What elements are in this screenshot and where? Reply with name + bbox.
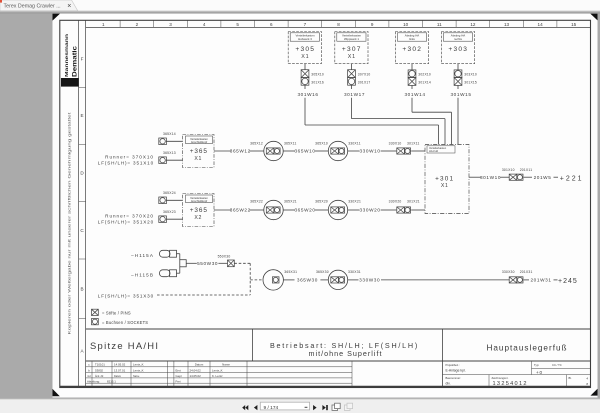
bulkhead connector 365X12/365X11 (264, 141, 283, 160)
svg-text:T10101: T10101 (95, 363, 105, 367)
label 365X20 (315, 199, 328, 203)
svg-text:X1: X1 (194, 156, 202, 162)
svg-text:F: F (81, 57, 84, 62)
legend socket symbol (92, 319, 99, 325)
svg-text:8215.1: 8215.1 (107, 379, 116, 383)
wire 550W30 (186, 262, 197, 264)
svg-text:Name: Name (222, 363, 230, 367)
connector 302X10/301X14 (408, 70, 431, 86)
wire 301W15 route to +301 (457, 85, 459, 144)
Mannesmann Dematic logo (61, 34, 79, 87)
wire to +245 (554, 279, 558, 281)
annotation Runner 370X10 (105, 154, 154, 159)
svg-text:301W16: 301W16 (297, 92, 318, 97)
wire 301W17 route to +301 (352, 86, 446, 145)
lamp -H115A (160, 250, 177, 257)
svg-text:330X20: 330X20 (389, 199, 402, 203)
wire (166, 159, 182, 161)
wire 301W16 route to +301 (305, 86, 439, 145)
svg-text:CC / TC: CC / TC (552, 363, 562, 367)
page corner mark bottom-right (591, 389, 598, 396)
svg-text:4: 4 (203, 22, 206, 27)
svg-text:Terex Demag Crawler ...: Terex Demag Crawler ... (4, 4, 61, 10)
wire label 301W14 (404, 92, 425, 97)
svg-text:+305: +305 (295, 46, 315, 53)
svg-text:K. Lentz: K. Lentz (212, 374, 223, 378)
svg-text:14.05.02: 14.05.02 (114, 363, 126, 367)
wire 365W30 (283, 279, 294, 281)
svg-text:Spitze HA/HI: Spitze HA/HI (90, 340, 159, 351)
label 330X11 (348, 141, 361, 145)
annotation LF 351X10 (98, 160, 154, 165)
svg-text:305X10: 305X10 (311, 72, 324, 76)
svg-text:Hubwerk 3: Hubwerk 3 (298, 37, 312, 41)
drawing border frame (60, 20, 591, 387)
svg-text:+221: +221 (560, 175, 584, 182)
wire (218, 262, 227, 264)
svg-text:+302: +302 (402, 46, 422, 53)
svg-text:7: 7 (304, 22, 307, 27)
svg-text:14: 14 (538, 22, 544, 27)
svg-text:201W5: 201W5 (534, 175, 552, 180)
svg-text:Zeichnungsnr.: Zeichnungsnr. (492, 376, 509, 380)
row-letter column line (85, 20, 87, 387)
connector 330X10/301X11 (397, 148, 411, 154)
column number ticks (120, 20, 557, 27)
svg-text:Datum: Datum (195, 363, 204, 367)
label 301X10 (502, 168, 515, 172)
svg-text:9: 9 (371, 22, 374, 27)
svg-text:330X31: 330X31 (348, 270, 361, 274)
junction box +365 X2 (Anschlusskopf) (183, 194, 215, 227)
junction box +305 X1 (Hubwerk 3) (288, 32, 321, 64)
svg-text:330W30: 330W30 (359, 278, 380, 283)
svg-text:Lentz_K: Lentz_K (133, 363, 144, 367)
svg-text:Baunummer:: Baunummer: (446, 376, 462, 380)
nav button previous page (254, 405, 258, 410)
svg-text:LF(SH/LH)= 351X20: LF(SH/LH)= 351X20 (98, 219, 154, 224)
svg-text:301X15: 301X15 (464, 81, 477, 85)
svg-text:8: 8 (337, 22, 340, 27)
svg-text:Runner= 370X10: Runner= 370X10 (105, 154, 154, 159)
legend text sockets (102, 320, 148, 325)
svg-text:Anschlußkopf: Anschlußkopf (191, 140, 208, 144)
svg-text:Bl.: Bl. (569, 376, 572, 380)
connector 305X10/301X16 (301, 70, 324, 86)
svg-text:303X10: 303X10 (464, 72, 477, 76)
svg-text:12: 12 (470, 22, 476, 27)
svg-text:Typ:: Typ: (534, 363, 539, 367)
svg-text:330X30: 330X30 (502, 270, 515, 274)
wire 301W10 (469, 176, 481, 178)
svg-text:550W30: 550W30 (197, 261, 218, 266)
wire (283, 150, 295, 152)
svg-text:LF(SH/LH)= 351X30: LF(SH/LH)= 351X30 (98, 293, 154, 298)
wire (283, 209, 295, 211)
svg-text:mit/ohne Superlift: mit/ohne Superlift (309, 349, 383, 358)
svg-text:X1: X1 (348, 54, 356, 60)
svg-text:24.04.02: 24.04.02 (190, 369, 202, 373)
svg-text:365X24: 365X24 (163, 191, 176, 195)
svg-text:–H115B: –H115B (131, 272, 154, 277)
label 330X30 (502, 270, 515, 274)
svg-text:Lentz_K: Lentz_K (133, 369, 144, 373)
label 365X14 (163, 132, 176, 136)
page corner mark top-right (590, 14, 597, 21)
wires lamps to junction plug (177, 254, 180, 274)
svg-text:Name: Name (133, 375, 140, 378)
wire label 301W17 (344, 92, 365, 97)
junction box +307 X1 (Wippwerk 1) (335, 32, 368, 64)
svg-text:301X11: 301X11 (407, 141, 420, 145)
svg-text:Kopieren oder Weitergabe nur m: Kopieren oder Weitergabe nur mit unserer… (68, 113, 72, 335)
wire label 301W10 (480, 175, 501, 180)
wire label 365W22 (230, 208, 251, 213)
connector 365X24 (159, 197, 167, 204)
label 201X31 (520, 270, 533, 274)
svg-text:Hauptauslegerfuß: Hauptauslegerfuß (486, 343, 567, 352)
svg-text:330W10: 330W10 (359, 149, 380, 154)
junction box +365 X1 (Anschlusskopf) (183, 135, 215, 168)
page corner mark top-left (53, 14, 61, 21)
wire (214, 150, 231, 152)
svg-text:B: B (80, 287, 83, 292)
label 365X23 (163, 210, 176, 214)
svg-text:201X11: 201X11 (520, 168, 533, 172)
legend pin symbol (92, 309, 99, 315)
bottom toolbar (0, 398, 600, 413)
wire 201W31 (524, 279, 529, 281)
svg-text:365W20: 365W20 (294, 208, 315, 213)
nav button last page (322, 405, 327, 410)
wire label 550W30 (197, 261, 218, 266)
nav button next page (313, 405, 317, 410)
connector 365X13 (159, 157, 167, 164)
label 330X10 (389, 141, 402, 145)
svg-text:Datum: Datum (114, 375, 121, 378)
svg-text:E: E (80, 113, 83, 118)
lamp label -H115A (131, 253, 154, 258)
label 365X30 (316, 270, 329, 274)
page corner mark bottom-left (53, 389, 60, 396)
wire (381, 150, 397, 152)
nav button first page (242, 405, 248, 410)
label 330X21 (348, 199, 361, 203)
wire (166, 199, 182, 201)
legend text pins (102, 311, 131, 316)
svg-text:Dematic: Dematic (71, 45, 78, 77)
connector 365X23 (159, 216, 167, 223)
title field Betriebsart (270, 341, 419, 358)
svg-text:5: 5 (236, 22, 239, 27)
label 550X30 (218, 255, 231, 259)
wire label 365W30 (297, 278, 318, 283)
svg-text:6: 6 (270, 22, 273, 27)
svg-text:15: 15 (571, 22, 577, 27)
annotation LF 351X30 (98, 293, 154, 298)
svg-text:11: 11 (437, 22, 442, 27)
svg-text:13254012: 13254012 (493, 381, 528, 387)
wire (250, 209, 264, 211)
destination +221 (560, 175, 584, 182)
page number combo box (260, 402, 309, 411)
toolbar icon pages disabled (344, 403, 352, 410)
svg-text:Mannesmann: Mannesmann (64, 34, 69, 77)
svg-text:Änd.-Nr.: Änd.-Nr. (95, 375, 104, 378)
bulkhead connector 365X31 (263, 270, 283, 290)
junction box +303 (Abstieg HA rechts) (441, 32, 474, 64)
junction box +301 X1 (Verteilerkasten HA-Fuss) (425, 145, 469, 214)
svg-text:365X30: 365X30 (316, 270, 329, 274)
svg-text:301X17: 301X17 (358, 81, 371, 85)
wire (348, 209, 360, 211)
lamp label -H115B (131, 272, 154, 277)
revision table texts (87, 363, 144, 384)
left margin strip line (78, 20, 80, 387)
label 365X12 (250, 141, 263, 145)
svg-text:Erst: Erst (176, 369, 181, 373)
wire (166, 218, 182, 220)
svg-text:301X14: 301X14 (418, 81, 431, 85)
svg-text:550X30: 550X30 (218, 255, 231, 259)
label 330X31 (348, 270, 361, 274)
svg-text:301W15: 301W15 (450, 92, 471, 97)
pin connector 550X30 (228, 260, 235, 267)
svg-text:301W17: 301W17 (344, 92, 365, 97)
svg-text:365W10: 365W10 (294, 149, 315, 154)
wire (500, 176, 509, 178)
svg-text:307X10: 307X10 (358, 72, 371, 76)
svg-text:365X13: 365X13 (163, 151, 176, 155)
wire into +301 (411, 150, 425, 152)
connector 301X10/201X11 (509, 174, 523, 180)
svg-text:10: 10 (403, 22, 409, 27)
svg-text:302X10: 302X10 (418, 72, 431, 76)
wire label 201W31 (530, 278, 551, 283)
svg-text:2: 2 (136, 22, 139, 27)
svg-text:330X21: 330X21 (348, 199, 361, 203)
svg-text:Abteilung:: Abteilung: (87, 379, 100, 383)
row letters F-A (79, 57, 86, 354)
wire label 330W10 (359, 149, 380, 154)
annotation Runner 370X20 (105, 213, 154, 218)
wire (250, 150, 264, 152)
svg-text:Projektbez.:: Projektbez.: (446, 363, 460, 367)
svg-text:301X21: 301X21 (407, 199, 420, 203)
svg-text:330X11: 330X11 (348, 141, 361, 145)
svg-text:LF(SH/LH)= 351X10: LF(SH/LH)= 351X10 (98, 160, 154, 165)
svg-text:HA-Fuß: HA-Fuß (429, 149, 438, 153)
svg-text:365W22: 365W22 (230, 208, 251, 213)
wire label 330W20 (359, 208, 380, 213)
wire +302 to connector (411, 64, 413, 70)
svg-text:links: links (409, 37, 415, 41)
svg-text:+0: +0 (536, 370, 543, 375)
svg-text:X1: X1 (301, 54, 309, 60)
wire to +221 (554, 176, 559, 178)
bulkhead connector 365X22/365X21 (264, 200, 283, 219)
svg-text:365X14: 365X14 (163, 132, 176, 136)
wire +305 to connector (304, 64, 306, 70)
svg-text:+303: +303 (448, 46, 468, 53)
svg-text:365X31: 365X31 (284, 270, 297, 274)
bulkhead connector 365X30/330X31 (328, 270, 347, 289)
label 365X22 (250, 199, 263, 203)
svg-text:301X10: 301X10 (502, 168, 515, 172)
svg-text:365X22: 365X22 (250, 199, 263, 203)
svg-text:= Buchsen / SOCKETS: = Buchsen / SOCKETS (102, 320, 148, 325)
label 301X21 (407, 199, 420, 203)
svg-text:330W20: 330W20 (359, 208, 380, 213)
svg-text:365X20: 365X20 (315, 199, 328, 203)
browser tab bar (0, 0, 600, 11)
svg-text:365X10: 365X10 (315, 141, 328, 145)
junction box +302 (Abstieg HA links) (395, 32, 428, 64)
label 330X20 (389, 199, 402, 203)
svg-text:13.07.01: 13.07.01 (114, 369, 126, 373)
bulkhead connector 365X10/330X11 (328, 141, 347, 160)
wire label 301W15 (450, 92, 471, 97)
wire label 365W10 (294, 149, 315, 154)
label 365X13 (163, 151, 176, 155)
svg-text:13: 13 (504, 22, 510, 27)
svg-text:rechts: rechts (454, 37, 462, 41)
connector 307X10/301X17 (348, 70, 371, 86)
connector 303X10/301X15 (454, 70, 477, 86)
lamp -H115B (160, 270, 177, 277)
svg-text:+307: +307 (342, 46, 362, 53)
label 365X11 (284, 141, 297, 145)
wire (166, 140, 182, 142)
svg-text:+365: +365 (190, 207, 208, 214)
label 365X21 (284, 199, 297, 203)
svg-text:E-Anlage kpl.: E-Anlage kpl. (446, 368, 466, 372)
copyright notice rotated text (68, 113, 72, 335)
wire (381, 209, 397, 211)
wire label 365W20 (294, 208, 315, 213)
svg-text:Frei: Frei (176, 379, 181, 383)
wire label 365W12 (230, 149, 251, 154)
title block grid (86, 329, 591, 387)
svg-text:×: × (67, 3, 71, 10)
svg-text:301W14: 301W14 (404, 92, 425, 97)
svg-text:X1: X1 (441, 183, 449, 189)
toolbar icon pages active (332, 403, 340, 410)
top column band line (86, 26, 591, 28)
svg-text:1: 1 (102, 22, 105, 27)
svg-text:Anschlußkopf: Anschlußkopf (191, 199, 208, 203)
wire into +301 (411, 209, 425, 211)
connector 330X20/301X21 (397, 207, 411, 213)
wire +303 to connector (457, 64, 459, 70)
svg-text:Runner= 370X20: Runner= 370X20 (105, 213, 154, 218)
svg-text:301X16: 301X16 (311, 81, 324, 85)
svg-text:Wippwerk 1: Wippwerk 1 (344, 37, 359, 41)
bulkhead connector 365X20/330X21 (328, 200, 347, 219)
wire +307 to connector (351, 64, 353, 70)
svg-text:Gepr: Gepr (176, 374, 182, 378)
wire (320, 279, 328, 281)
svg-text:201X31: 201X31 (520, 270, 533, 274)
svg-text:365W12: 365W12 (230, 149, 251, 154)
wire (348, 150, 360, 152)
svg-text:div.: div. (446, 382, 451, 386)
junction plug 550 (180, 260, 186, 267)
wire 330W30 (348, 279, 359, 281)
svg-text:+245: +245 (558, 278, 578, 285)
label 365X31 (284, 270, 297, 274)
svg-text:+301: +301 (435, 176, 454, 183)
drawing info texts (446, 363, 589, 387)
svg-text:Lentz_K: Lentz_K (212, 369, 223, 373)
label 301X11 (407, 141, 420, 145)
title field Spitze HA/HI (90, 340, 159, 351)
svg-text:X2: X2 (194, 215, 202, 221)
wire (315, 150, 328, 152)
svg-text:3: 3 (169, 22, 172, 27)
svg-text:14.05.02: 14.05.02 (190, 374, 202, 378)
label 201X11 (520, 168, 533, 172)
approval table texts (176, 363, 231, 384)
svg-text:201W31: 201W31 (530, 278, 551, 283)
wire 301W14 route to +301 (412, 85, 452, 144)
svg-text:365X21: 365X21 (284, 199, 297, 203)
wire 201W5 (524, 176, 532, 178)
svg-text:365X11: 365X11 (284, 141, 297, 145)
label 365X24 (163, 191, 176, 195)
svg-text:330X10: 330X10 (389, 141, 402, 145)
svg-text:–H115A: –H115A (131, 253, 154, 258)
destination +245 (558, 278, 578, 285)
connector 330X30/201X31 (509, 277, 523, 283)
svg-text:365W30: 365W30 (297, 278, 318, 283)
column numbers 1-15 (102, 22, 577, 27)
svg-text:365X23: 365X23 (163, 210, 176, 214)
title field Hauptauslegerfuss (486, 343, 567, 352)
connector 365X14 (159, 138, 167, 145)
svg-text:+365: +365 (190, 148, 208, 155)
label 365X10 (315, 141, 328, 145)
annotation LF 351X20 (98, 219, 154, 224)
wire (214, 209, 231, 211)
wire label 301W16 (297, 92, 318, 97)
svg-text:301W10: 301W10 (480, 175, 501, 180)
svg-text:= Stifte / PINS: = Stifte / PINS (102, 311, 131, 316)
wire label 201W5 (534, 175, 552, 180)
dashed option wires to 365X31 (157, 263, 263, 295)
svg-text:53802: 53802 (95, 369, 103, 373)
svg-text:9 / 174: 9 / 174 (264, 405, 279, 411)
long wire 330W30 (381, 279, 509, 281)
wire (315, 209, 328, 211)
wire label 330W30 (359, 278, 380, 283)
svg-text:365X12: 365X12 (250, 141, 263, 145)
